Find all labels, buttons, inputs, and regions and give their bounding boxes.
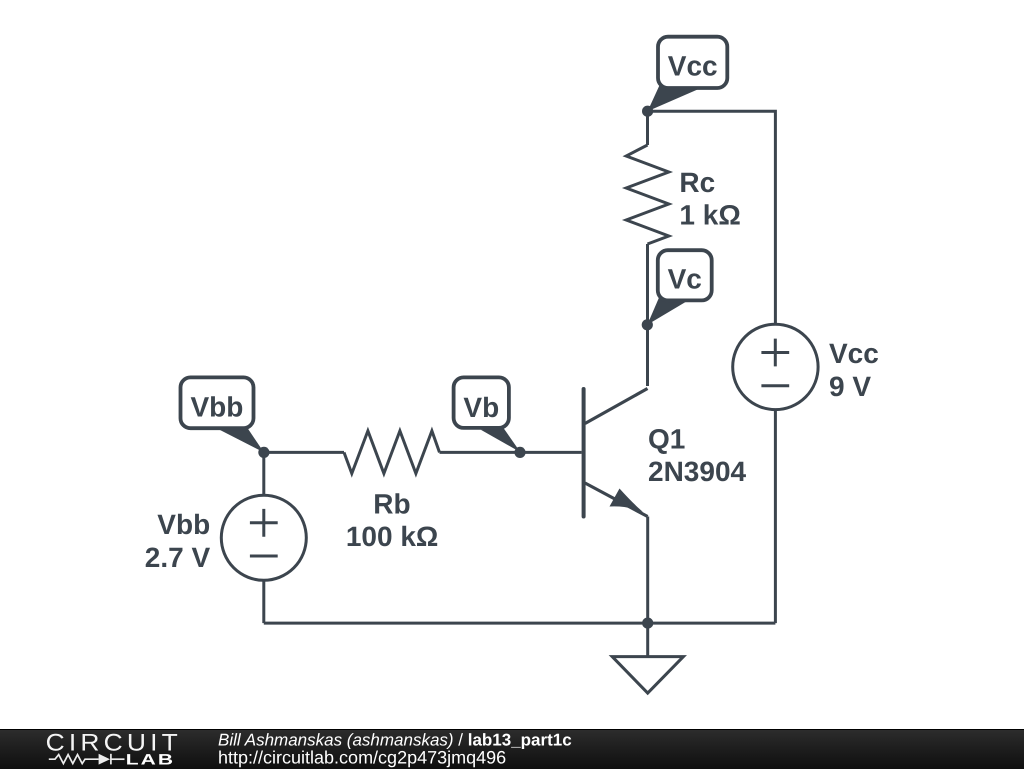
voltage source Vbb circle — [221, 495, 306, 580]
svg-text:LAB: LAB — [126, 752, 175, 768]
footer bar — [0, 729, 1024, 769]
callout tail Vbb — [219, 428, 264, 453]
wire source Vcc to bottom rail — [774, 410, 777, 623]
resistor Rc — [626, 145, 669, 244]
wire node Vc to collector — [646, 325, 649, 386]
ground symbol — [612, 657, 683, 694]
CircuitLab logo diode — [99, 754, 110, 765]
voltage source Vcc circle — [733, 324, 818, 409]
source Vcc minus sign — [761, 384, 789, 387]
junction dot node Vbb — [258, 447, 269, 458]
CircuitLab logo resistor squiggle — [49, 754, 125, 765]
callout tail Vb — [481, 428, 521, 453]
wire base from node Vb to transistor — [520, 451, 582, 454]
junction dot bottom rail — [642, 618, 653, 629]
wire source Vbb to bottom rail — [262, 580, 265, 623]
callout tail Vcc — [648, 82, 701, 111]
wire node Vbb to Rb left lead — [264, 451, 344, 454]
wire ground lead — [646, 623, 649, 657]
callout tail Vc — [647, 296, 688, 325]
junction dot node Vcc — [642, 106, 653, 117]
wire bottom rail — [264, 622, 776, 625]
flag Vbb box — [181, 377, 254, 428]
wire top node to right rail — [648, 111, 776, 324]
resistor Rb — [344, 431, 440, 474]
junction dot node Vb — [514, 447, 525, 458]
source Vbb plus sign — [250, 509, 278, 537]
wire Rc bottom to node Vc — [646, 244, 649, 325]
source Vcc plus sign — [761, 339, 789, 367]
transistor Q1 base bar — [582, 389, 586, 517]
source Vbb minus sign — [250, 555, 278, 558]
wire Vcc node down to Rc top — [646, 111, 649, 145]
flag Vc box — [658, 250, 712, 300]
flag Vb box — [454, 377, 509, 428]
transistor Q1 collector lead — [585, 389, 648, 424]
wire node Vbb down to source Vbb — [262, 452, 265, 495]
flag Vcc box — [658, 37, 727, 88]
svg-text:http://circuitlab.com/cg2p473j: http://circuitlab.com/cg2p473jmq496 — [218, 748, 506, 768]
transistor Q1 emitter lead — [585, 483, 648, 517]
wire Rb right lead to node Vb — [440, 451, 521, 454]
wire emitter down — [646, 517, 649, 624]
transistor Q1 emitter arrow — [610, 489, 644, 513]
junction dot node Vc — [642, 319, 653, 330]
